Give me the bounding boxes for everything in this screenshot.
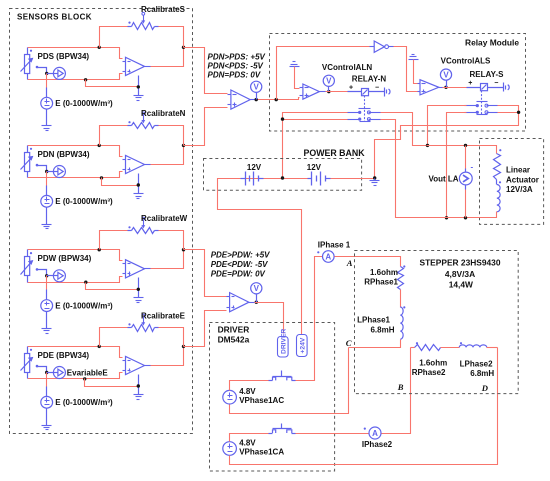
source E cell W [41,300,53,312]
wire source to ground cell S [46,110,48,126]
voltmeter VControlALS [446,81,448,88]
svg-text:RELAY-S: RELAY-S [470,70,505,79]
resistor RPhase2 [415,345,441,351]
svg-text:RcalibrateE: RcalibrateE [141,311,186,320]
current probe cell N [47,171,54,173]
wire PDE out to comparator2 plus [184,311,227,347]
op-amp US [126,57,145,75]
node comparator1 out [255,98,258,101]
ground rail cell N [100,176,103,179]
wire lphase1 to node C [349,340,401,348]
current probe cell W [47,275,54,277]
driver +24V label box [297,335,308,357]
svg-text:DRIVER: DRIVER [280,329,287,354]
wire rphase1 to lphase1 [400,290,402,308]
op-amp ground cell S [134,96,144,101]
wire source to ground cell N [46,208,48,225]
relay coil RELAY-S [467,83,510,92]
node PDN anode [36,164,39,167]
wire to source E cell W [46,276,48,290]
voltage probe VoutLA [465,146,467,169]
svg-text:PDE>PDW: +5V: PDE>PDW: +5V [211,251,270,260]
wire pot S right [159,27,184,48]
wire node B to rphase2 [411,347,415,349]
photodiode PDS [21,48,33,80]
wire inverter output to relay-s op-amp [394,47,418,92]
wire comparator1 output [257,98,300,100]
svg-text:+24V: +24V [299,337,306,353]
wire relay-s drive to coil [443,87,467,89]
op-amp ground pin cell E [138,375,140,395]
wire pot E left [100,328,129,347]
svg-text:D: D [481,383,488,393]
svg-text:Relay Module: Relay Module [465,38,519,48]
svg-text:PDS (BPW34): PDS (BPW34) [38,52,90,61]
ground power bank [374,179,376,181]
ground cell E [42,426,52,430]
wire battery rail [241,178,309,180]
wire pot W right [159,231,184,250]
svg-text:PDE (BPW34): PDE (BPW34) [38,351,90,360]
ground relay-s op-amp [409,55,419,60]
ground cell N [42,225,52,229]
wire pot N left [100,126,129,146]
relay contacts RELAY-N [348,96,381,122]
wire ground to relay-n minus [295,67,300,89]
source E cell N [41,195,53,207]
wire PDW out to comparator2 minus [184,250,227,297]
svg-text:E (0-1000W/m³): E (0-1000W/m³) [55,197,113,206]
node actuator minus [445,216,448,219]
voltmeter probe comparator1 [256,93,258,100]
wire rphase2 to lphase2 [441,347,460,349]
svg-text:A: A [346,258,353,268]
op-amp ground cell N [134,194,144,199]
wire op-amp S output [151,48,184,67]
wire PDE loop top [28,347,123,358]
wire vphase1ca minus to stepper D [230,348,498,465]
svg-text:V: V [326,77,332,86]
relay coil RELAY-N [348,88,391,97]
node relay-n drive [327,90,330,93]
svg-text:1.6ohm: 1.6ohm [419,359,447,368]
node outE [182,345,185,348]
svg-text:−: − [494,80,498,87]
source E cell E [41,396,53,408]
svg-text:VPhase1CA: VPhase1CA [239,447,284,456]
svg-text:E (0-1000W/m³): E (0-1000W/m³) [55,302,113,311]
wire pot W left [100,231,129,250]
voltmeter probe comparator2 [256,295,258,303]
svg-text:14,4W: 14,4W [449,280,473,290]
svg-text:VControlALS: VControlALS [441,56,491,65]
svg-text:PDE<PDW: -5V: PDE<PDW: -5V [211,260,268,269]
svg-text:Linear: Linear [506,166,530,175]
op-amp UN [126,155,145,173]
svg-text:B: B [397,382,404,392]
wire relay-s row2 left to actuator minus rail [447,113,467,218]
op-amp ground cell E [134,395,144,400]
wire relay-n row2 to actuator minus rail [381,120,447,218]
svg-text:Actuator: Actuator [506,175,539,184]
source E cell S [41,97,53,109]
photodiode PDN [21,146,33,178]
svg-text:PDN>PDS: +5V: PDN>PDS: +5V [208,52,266,61]
svg-text:RPhase1: RPhase1 [364,277,398,286]
svg-text:−: − [375,84,379,91]
node voutla top [464,144,467,147]
svg-text:1.6ohm: 1.6ohm [370,268,398,277]
wire PDN loop bottom [28,172,123,178]
node PDE anode [36,365,39,368]
node comparator2 out [255,301,258,304]
svg-text:V: V [254,284,260,293]
wire to source E cell E [46,373,48,387]
svg-text:V: V [443,71,449,80]
svg-text:E (0-1000W/m³): E (0-1000W/m³) [55,398,113,407]
svg-text:12V: 12V [247,163,262,172]
potentiometer RcalibrateE [132,325,155,332]
node voutla bottom [464,216,467,219]
svg-text:VControlALN: VControlALN [322,63,372,72]
wire pushbutton to iphase1 [296,257,323,381]
svg-text:RcalibrateS: RcalibrateS [141,5,186,14]
svg-text:6.8mH: 6.8mH [470,369,494,378]
node outW [182,248,185,251]
svg-text:LPhase2: LPhase2 [460,360,493,369]
relay contacts RELAY-S [465,91,498,115]
wire vphase1ac plus [230,381,269,391]
svg-text:PDN<PDS: -5V: PDN<PDS: -5V [208,61,264,70]
ammeter IPhase2 [369,427,381,439]
wire PDW loop bottom [28,277,123,283]
wire source to ground cell E [46,409,48,426]
svg-text:4,8V/3A: 4,8V/3A [445,269,475,279]
wire PDN out to comparator1 plus [184,108,228,146]
svg-text:PDW (BPW34): PDW (BPW34) [38,254,92,263]
battery B2 12V [311,172,313,186]
op-amp ground pin cell S [138,76,140,96]
ammeter IPhase1 [323,251,335,263]
svg-text:C: C [346,338,352,348]
svg-text:4.8V: 4.8V [239,438,256,447]
wire relay-s right to ground node [375,106,519,179]
svg-text:STEPPER 23HS9430: STEPPER 23HS9430 [419,257,500,267]
svg-text:12V/3A: 12V/3A [506,185,533,194]
potentiometer RcalibrateW [132,228,155,234]
svg-text:V: V [254,83,260,92]
wire PDN loop top [28,146,123,157]
photodiode PDE [21,347,33,379]
wire pushbutton to iphase2 [296,433,370,435]
svg-text:PDN=PDS: 0V: PDN=PDS: 0V [208,70,261,79]
inductor actuator [496,180,498,185]
svg-text:IPhase2: IPhase2 [362,440,393,449]
svg-text:PDE=PDW: 0V: PDE=PDW: 0V [211,269,266,278]
inverter U7 [374,41,384,52]
wire to source E cell S [46,74,48,88]
ground cell S [42,126,52,131]
svg-text:A: A [325,252,331,261]
op-amp UW [126,260,145,278]
wire op-amp N output [151,146,184,165]
node power right [373,176,376,179]
resistor RPhase1 [398,267,404,290]
node PDS anode [36,66,39,69]
svg-text:RcalibrateN: RcalibrateN [141,109,186,118]
wire actuator plus rail [427,146,497,154]
power bank border [204,159,362,191]
svg-text:Vout LA: Vout LA [429,174,459,183]
op-amp comparator U5 [231,90,250,109]
ground rail cell S [84,78,87,81]
inductor LPhase1 [400,307,403,339]
op-amp ground cell W [134,298,144,303]
wire relay-n contacts left to power mid [283,113,348,179]
svg-text:DM542a: DM542a [218,335,250,345]
svg-text:EvariableE: EvariableE [67,369,109,378]
node outS [182,46,185,49]
wire PDW loop top [28,250,123,261]
ground relay-n op-amp [290,62,300,67]
pushbutton phase2 [269,424,296,434]
svg-text:RcalibrateW: RcalibrateW [141,214,188,223]
wire actuator bottom [396,212,497,218]
ground rail cell E [83,377,86,380]
svg-text:IPhase 1: IPhase 1 [318,241,351,250]
wire relay-n drive to coil [326,91,348,93]
svg-text:12V: 12V [307,163,322,172]
source VPhase1CA [223,442,237,456]
svg-text:LPhase1: LPhase1 [357,315,390,324]
node outN [182,144,185,147]
wire source to ground cell W [46,312,48,329]
wire to source E cell N [46,172,48,186]
svg-text:E (0-1000W/m³): E (0-1000W/m³) [55,99,113,108]
svg-text:SENSORS BLOCK: SENSORS BLOCK [17,13,92,22]
wire relay-n row1 to actuator plus rail [381,113,427,146]
node relay-s drive [444,86,447,89]
op-amp relay-n driver U8 [303,84,320,99]
potentiometer RcalibrateS [132,23,155,30]
svg-text:4.8V: 4.8V [239,387,256,396]
linear actuator border [480,139,544,225]
wire PDS out to comparator1 minus [184,48,228,94]
driver border [210,323,335,472]
node relay-n left [281,117,284,120]
resistor actuator [494,154,501,180]
wire ground to relay-s minus [414,60,418,84]
node PDW anode [36,268,39,271]
wire PDS loop top [28,48,123,59]
photodiode PDW [21,250,33,283]
ground rail cell W [84,281,87,284]
svg-text:RPhase2: RPhase2 [412,368,446,377]
voltmeter VControlALN [328,87,330,92]
wire pot N right [159,126,184,146]
potentiometer RcalibrateN [132,123,155,129]
wire comparator1 to inverter [275,98,278,101]
svg-text:DRIVER: DRIVER [218,324,250,334]
wire comparator2 output to driver [255,303,284,334]
relay module border [270,34,526,132]
wire iphase1 to stepper A [335,257,401,267]
node actuator plus [426,144,429,147]
battery B1 12V [245,172,247,186]
op-amp UE [126,356,145,374]
svg-text:+: + [468,80,472,87]
wire vphase1ac minus [230,348,349,414]
wire pot E right [159,328,184,347]
svg-text:RELAY-N: RELAY-N [352,75,387,84]
svg-text:POWER BANK: POWER BANK [304,148,366,158]
wire vphase1ca plus [230,434,269,442]
op-amp ground pin cell N [138,174,140,194]
svg-text:VPhase1AC: VPhase1AC [239,396,284,405]
node relay-s right [517,111,520,114]
svg-text:6.8mH: 6.8mH [370,325,394,334]
op-amp ground pin cell W [138,278,140,298]
wire PDS loop bottom [28,74,123,80]
op-amp comparator U6 [230,293,249,312]
op-amp relay-s driver U9 [420,80,439,95]
wire op-amp W output [151,250,184,269]
source VPhase1AC [223,390,237,404]
stepper border [355,251,519,394]
wire relay-s row1 left to actuator plus rail [428,106,467,146]
driver signal label box [278,337,289,358]
inductor LPhase2 [459,345,487,347]
node power mid tap [281,176,284,179]
current probe cell E [47,372,54,374]
sensors block border [10,9,193,434]
wire iphase2 to stepper B [382,348,411,434]
svg-text:A: A [372,429,378,438]
ground cell W [42,329,52,334]
wire op-amp E output [151,347,184,366]
pushbutton phase1 [269,371,296,381]
wire power bank left loop [218,179,302,335]
svg-text:-: - [471,163,474,172]
wire pot S left [100,27,129,48]
wire lphase2 to node D [487,347,498,349]
svg-text:PDN (BPW34): PDN (BPW34) [38,150,90,159]
current probe cell S [47,73,54,75]
wire PDE loop bottom [28,373,123,379]
svg-text:+: + [349,84,353,91]
